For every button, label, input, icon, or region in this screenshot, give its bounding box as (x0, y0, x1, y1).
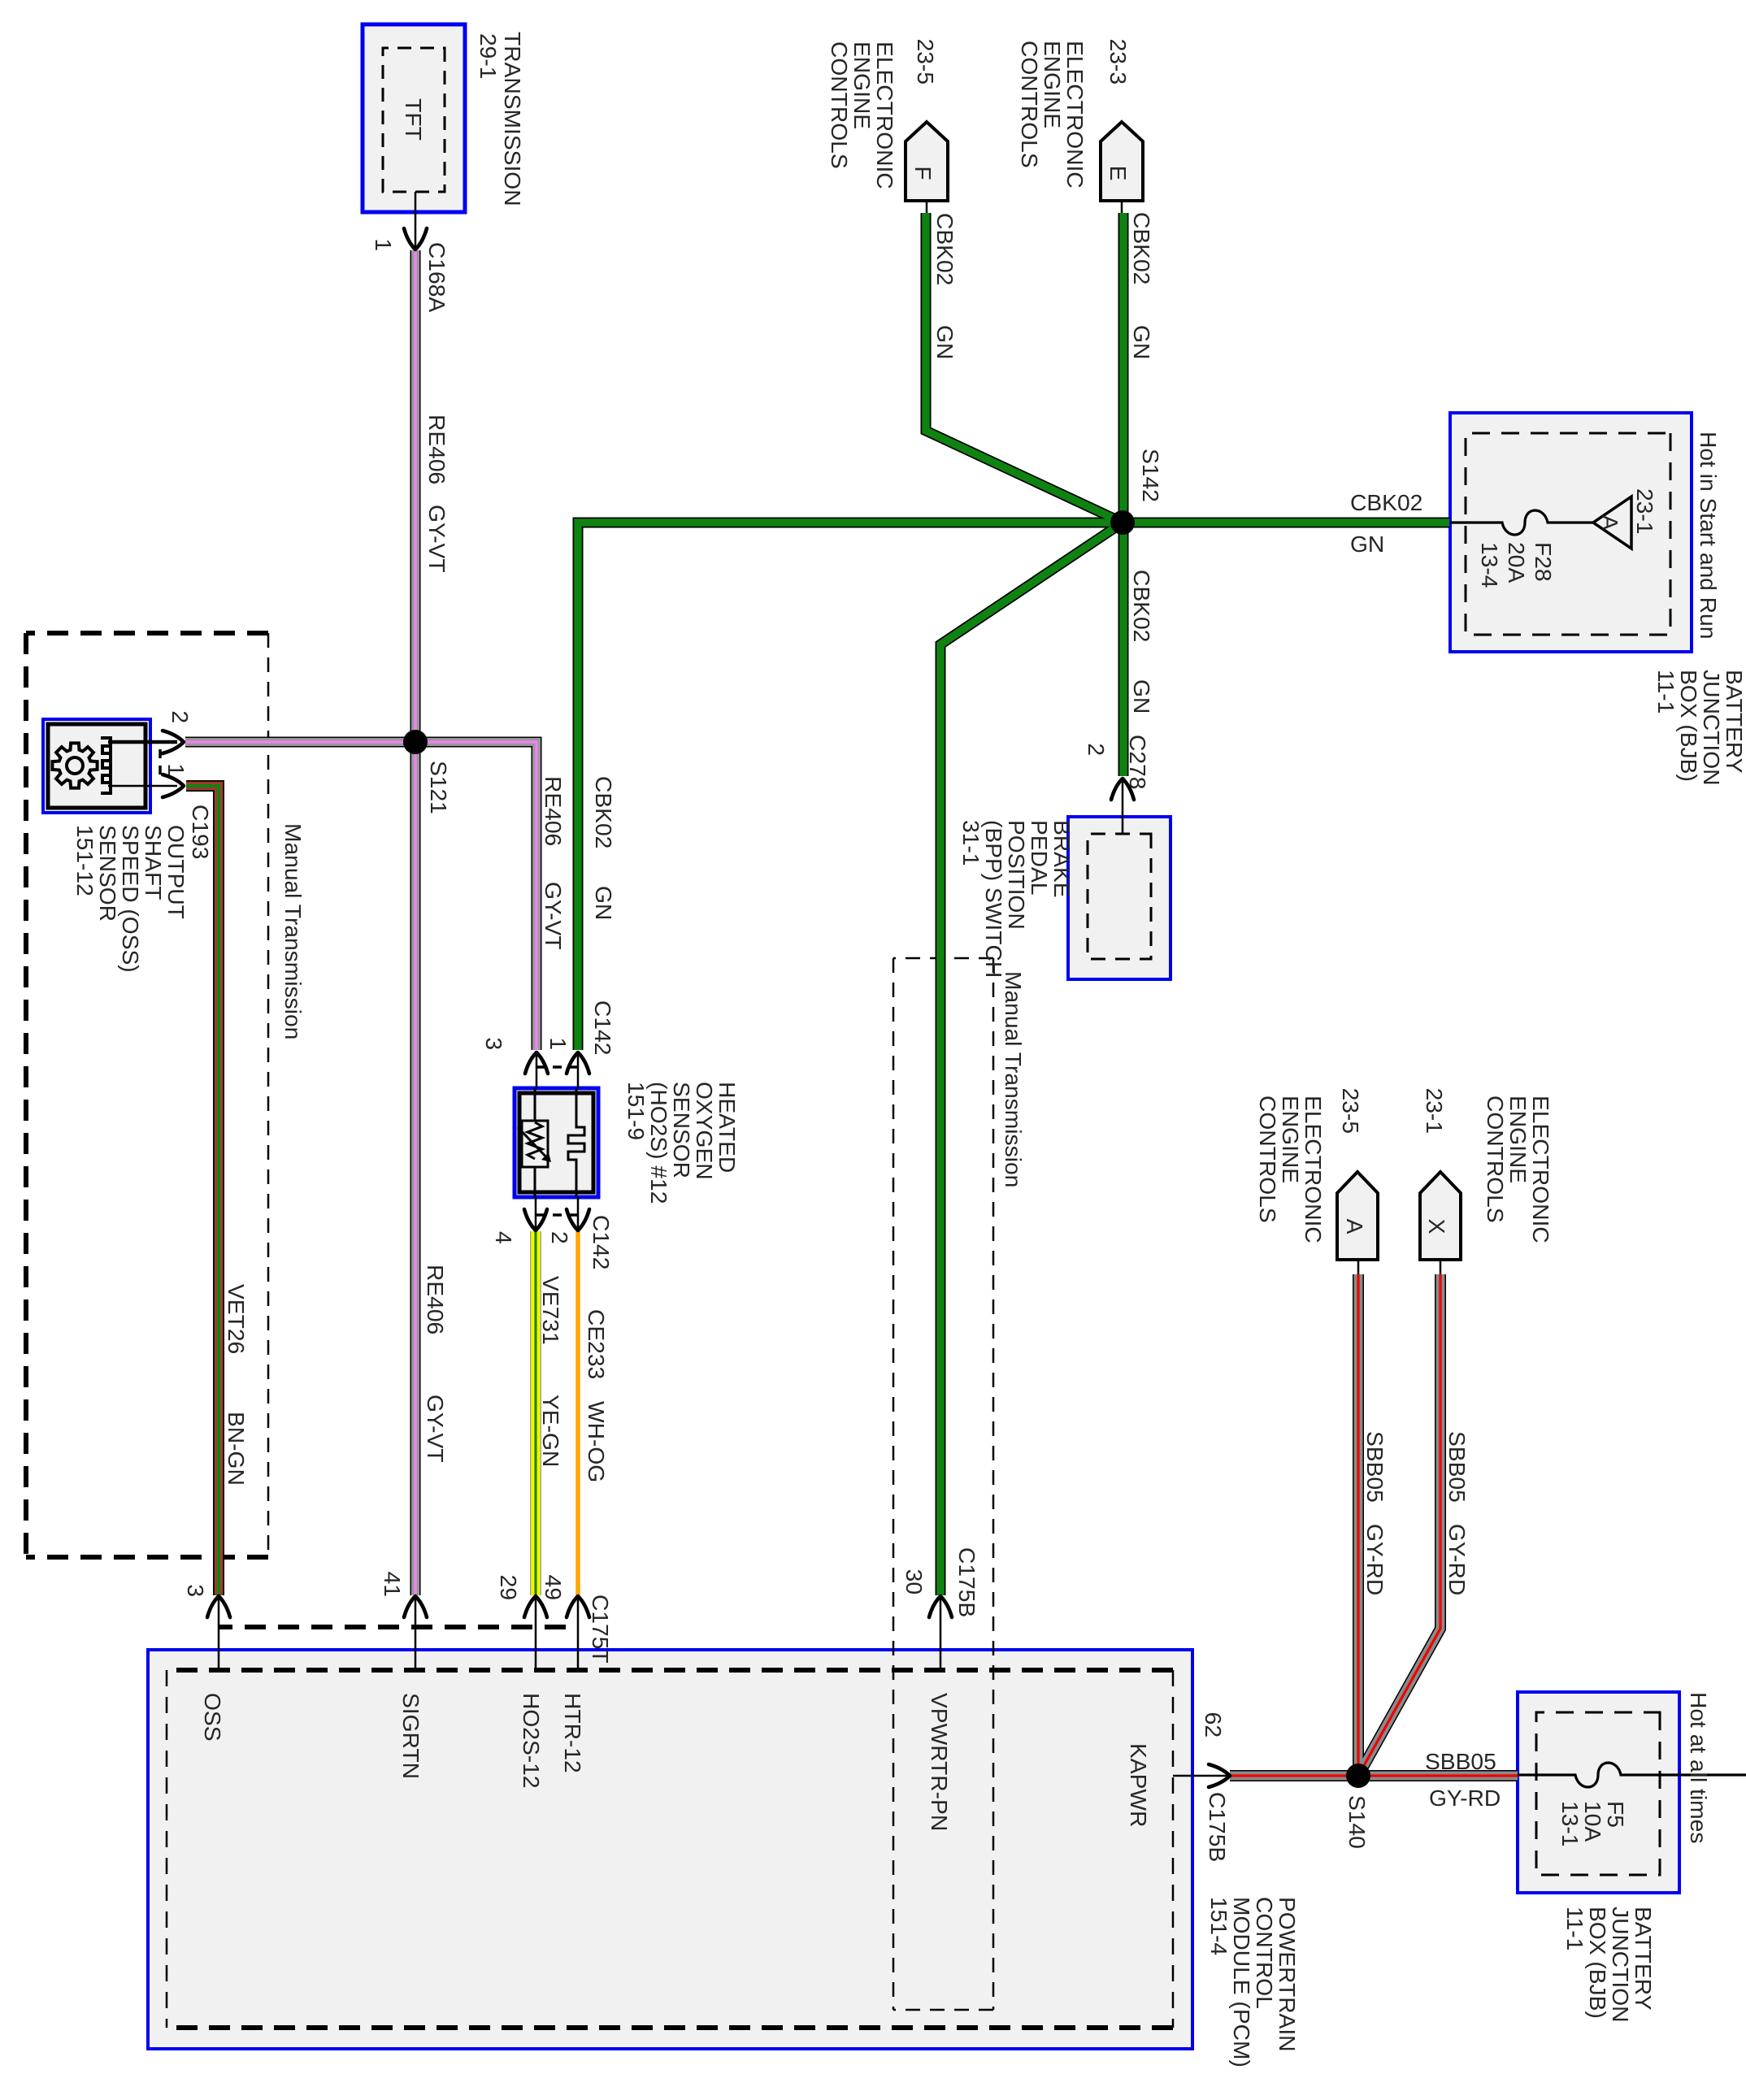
svg-text:2: 2 (1084, 743, 1110, 756)
svg-text:CONTROLS: CONTROLS (1255, 1096, 1281, 1223)
svg-text:4: 4 (491, 1231, 517, 1244)
svg-text:29-1: 29-1 (476, 33, 502, 79)
svg-text:SIGRTN: SIGRTN (398, 1693, 424, 1779)
svg-text:GN: GN (591, 886, 617, 920)
svg-text:TRANSMISSION: TRANSMISSION (500, 32, 526, 206)
svg-text:GN: GN (1129, 325, 1155, 359)
svg-text:3: 3 (183, 1584, 209, 1597)
svg-text:SBB05: SBB05 (1425, 1748, 1496, 1774)
svg-text:GN: GN (1350, 531, 1384, 557)
svg-text:23-5: 23-5 (913, 39, 939, 85)
svg-text:GY-RD: GY-RD (1429, 1785, 1501, 1811)
svg-text:GY-VT: GY-VT (541, 882, 567, 950)
svg-text:11-1: 11-1 (1653, 670, 1679, 714)
svg-text:Manual Transmission: Manual Transmission (1001, 971, 1027, 1187)
svg-text:CBK02: CBK02 (1129, 570, 1155, 642)
svg-text:1: 1 (163, 763, 189, 776)
svg-text:CBK02: CBK02 (591, 776, 617, 848)
svg-text:31-1: 31-1 (958, 820, 984, 866)
svg-text:Hot in Start and Run: Hot in Start and Run (1696, 432, 1722, 639)
svg-text:C175B: C175B (1205, 1792, 1231, 1862)
svg-text:F: F (910, 166, 936, 180)
svg-text:CONTROLS: CONTROLS (1483, 1096, 1509, 1223)
svg-text:GY-VT: GY-VT (423, 1395, 449, 1463)
svg-text:E: E (1105, 166, 1131, 181)
svg-text:23-5: 23-5 (1338, 1088, 1364, 1134)
svg-text:GN: GN (1129, 679, 1155, 714)
svg-text:GY-VT: GY-VT (424, 505, 450, 573)
svg-text:151-4: 151-4 (1206, 1897, 1232, 1955)
svg-text:30: 30 (901, 1569, 927, 1595)
svg-text:GN: GN (932, 325, 958, 359)
svg-text:C278: C278 (1125, 735, 1151, 789)
svg-text:2: 2 (547, 1231, 573, 1244)
svg-text:151-12: 151-12 (72, 825, 98, 896)
svg-text:CBK02: CBK02 (1350, 489, 1422, 515)
svg-text:11-1: 11-1 (1562, 1907, 1588, 1950)
svg-text:13-1: 13-1 (1557, 1801, 1583, 1846)
svg-text:GY-RD: GY-RD (1444, 1524, 1470, 1595)
svg-text:F28: F28 (1531, 542, 1557, 582)
svg-text:1: 1 (545, 1037, 571, 1050)
svg-text:RE406: RE406 (423, 1265, 449, 1334)
svg-text:S142: S142 (1138, 449, 1164, 502)
svg-text:VET26: VET26 (224, 1284, 250, 1354)
svg-text:C142: C142 (590, 1000, 616, 1055)
svg-text:29: 29 (496, 1575, 522, 1600)
svg-text:VPWRTR-PN: VPWRTR-PN (927, 1693, 953, 1831)
svg-text:S140: S140 (1344, 1795, 1370, 1849)
svg-text:151-9: 151-9 (623, 1082, 649, 1140)
svg-text:20A: 20A (1504, 542, 1530, 583)
svg-text:TFT: TFT (401, 98, 427, 141)
svg-text:OSS: OSS (200, 1693, 226, 1742)
svg-text:23-3: 23-3 (1105, 39, 1131, 85)
svg-text:RE406: RE406 (424, 414, 450, 484)
svg-text:49: 49 (541, 1575, 567, 1600)
svg-text:C168A: C168A (424, 242, 450, 312)
svg-text:GY-RD: GY-RD (1362, 1524, 1388, 1595)
svg-text:2: 2 (167, 710, 193, 723)
svg-text:BN-GN: BN-GN (224, 1412, 250, 1486)
svg-text:HO2S-12: HO2S-12 (519, 1693, 545, 1789)
svg-text:CBK02: CBK02 (1129, 212, 1155, 284)
svg-text:RE406: RE406 (541, 776, 567, 846)
svg-text:62: 62 (1201, 1712, 1227, 1738)
svg-text:CONTROLS: CONTROLS (1017, 41, 1043, 168)
svg-text:Hot at all times: Hot at all times (1686, 1692, 1712, 1843)
svg-text:1: 1 (371, 238, 397, 251)
svg-text:41: 41 (380, 1572, 406, 1597)
svg-text:CONTROLS: CONTROLS (827, 41, 853, 169)
svg-text:CE233: CE233 (584, 1309, 610, 1379)
svg-text:C142: C142 (589, 1215, 615, 1269)
svg-text:X: X (1424, 1219, 1450, 1234)
svg-text:C193: C193 (188, 805, 214, 859)
svg-text:SBB05: SBB05 (1444, 1431, 1470, 1503)
svg-text:WH-OG: WH-OG (584, 1401, 610, 1482)
svg-text:S121: S121 (426, 761, 452, 814)
svg-text:C175T: C175T (588, 1595, 614, 1664)
svg-text:HTR-12: HTR-12 (560, 1693, 586, 1773)
svg-text:SBB05: SBB05 (1362, 1431, 1388, 1503)
svg-text:KAPWR: KAPWR (1126, 1743, 1152, 1827)
svg-text:VE731: VE731 (538, 1276, 564, 1345)
svg-text:23-1: 23-1 (1422, 1088, 1448, 1134)
svg-text:13-4: 13-4 (1477, 542, 1503, 588)
svg-text:Manual Transmission: Manual Transmission (280, 823, 306, 1039)
svg-text:YE-GN: YE-GN (538, 1395, 564, 1467)
svg-text:C175B: C175B (954, 1547, 980, 1617)
svg-text:3: 3 (481, 1037, 507, 1050)
svg-text:23-1: 23-1 (1632, 488, 1658, 534)
svg-text:CBK02: CBK02 (932, 213, 958, 285)
svg-text:A: A (1342, 1219, 1368, 1234)
svg-text:A: A (1597, 515, 1623, 531)
